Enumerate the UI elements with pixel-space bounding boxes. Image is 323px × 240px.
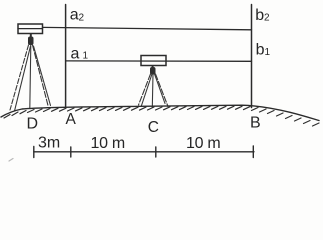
dimension tick at B [252,146,254,158]
svg-text:3m: 3m [38,135,60,152]
dimension tick at D [33,147,35,158]
staff A vertical line [65,5,67,107]
svg-text:10 m: 10 m [91,135,125,152]
svg-text:A: A [66,111,77,128]
instrument D tripod legs [10,45,51,111]
instrument C tripod head [150,66,156,75]
level instrument D box [18,24,43,34]
level instrument C box [141,56,166,66]
svg-text:D: D [27,116,39,133]
label b1 [256,42,271,59]
dimension tick at C [155,147,157,157]
staff B vertical line [251,5,253,108]
svg-text:2: 2 [264,13,270,24]
svg-text:b: b [255,7,264,24]
dimension tick at A [70,147,72,157]
svg-text:1: 1 [83,50,89,61]
svg-text:1: 1 [265,47,271,58]
sight line a2-b2 from instrument D [43,27,252,29]
label a1 [71,45,89,62]
dimension line [34,151,254,153]
ground hatching [4,106,319,126]
label a2 [70,7,85,24]
svg-text:b: b [256,42,265,59]
svg-text:2: 2 [79,13,85,24]
stray scan mark bottom-left [9,159,13,162]
ground line [1,105,319,120]
instrument C tripod legs [139,74,169,108]
sight line a1-b1 through instrument C [66,60,252,62]
svg-text:10 m: 10 m [186,135,220,152]
svg-text:a: a [71,45,80,62]
svg-text:B: B [250,115,261,132]
svg-text:a: a [70,7,79,24]
svg-text:C: C [148,119,159,136]
label b2 [255,7,270,24]
instrument D tripod head [28,34,34,46]
